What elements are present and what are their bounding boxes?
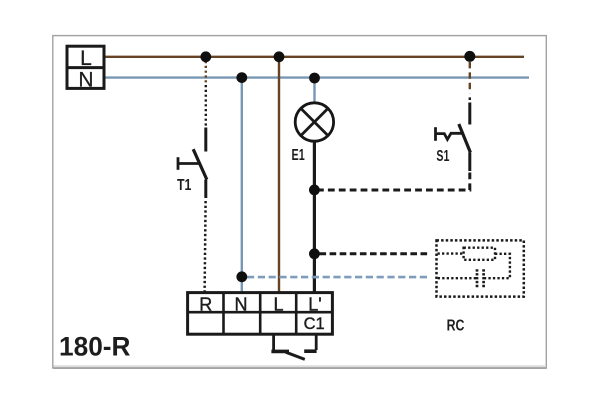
capacitor C (RC module) [477, 269, 484, 289]
node: S1 tap on L bus [464, 51, 475, 62]
svg-text:R: R [199, 294, 212, 314]
svg-text:S1: S1 [436, 148, 449, 165]
switch T1 [178, 128, 207, 199]
node: T1 tap on L bus [200, 51, 211, 62]
wire: blue stub from N bus to lamp E1 [313, 78, 315, 102]
wire N bus (blue) [104, 76, 529, 78]
source terminal box L/N [67, 46, 104, 91]
svg-text:N: N [78, 68, 93, 91]
wire: dashed return from S1 to node on lamp wire [318, 173, 470, 191]
node: S1 return junction on lamp wire [309, 185, 320, 196]
svg-text:RC: RC [447, 317, 465, 334]
lamp E1 [295, 103, 333, 141]
wire: blue dashed from node on N drop to RC module [247, 276, 428, 279]
svg-text:180-R: 180-R [59, 331, 131, 361]
wire: dotted drop from T1 to terminal R [205, 201, 206, 292]
wire: dotted from resistor to capacitor [485, 254, 510, 278]
svg-text:T1: T1 [177, 177, 192, 194]
wire: dashed from node on lamp wire to RC module [320, 252, 431, 255]
wire: black drop from lamp E1 to terminal L' [313, 141, 316, 292]
svg-text:C1: C1 [304, 315, 325, 333]
node: L drop tap on L bus [274, 51, 285, 62]
svg-text:L: L [273, 294, 283, 314]
wire: dotted drop from L bus to switch T1 [205, 61, 207, 127]
node: N drop tap on N bus [236, 72, 247, 83]
svg-text:L: L [80, 47, 92, 70]
svg-text:N: N [235, 294, 248, 314]
switch S1 [436, 103, 471, 172]
wire L bus (brown) [104, 56, 524, 58]
svg-text:L': L' [308, 294, 321, 314]
node: E1 tap on N bus [309, 73, 320, 84]
wire: brown drop from L bus to terminal L [278, 57, 280, 292]
relay contact C1 between L and L' [271, 334, 316, 359]
svg-text:E1: E1 [292, 147, 305, 164]
wire: blue drop from N bus to terminal N [241, 78, 243, 292]
terminal block R N L L' / C1 [188, 293, 333, 335]
RC module enclosure (dotted) [437, 240, 524, 296]
wire: dotted from capacitor to enclosure edge [437, 277, 476, 279]
resistor R (RC module) [464, 248, 495, 260]
wire: dotted lead into resistor [438, 252, 464, 254]
node: RC junction on lamp wire [309, 248, 320, 259]
node: RC junction on N drop [236, 271, 247, 282]
wire: dashed drop from L bus to switch S1 [469, 62, 471, 100]
